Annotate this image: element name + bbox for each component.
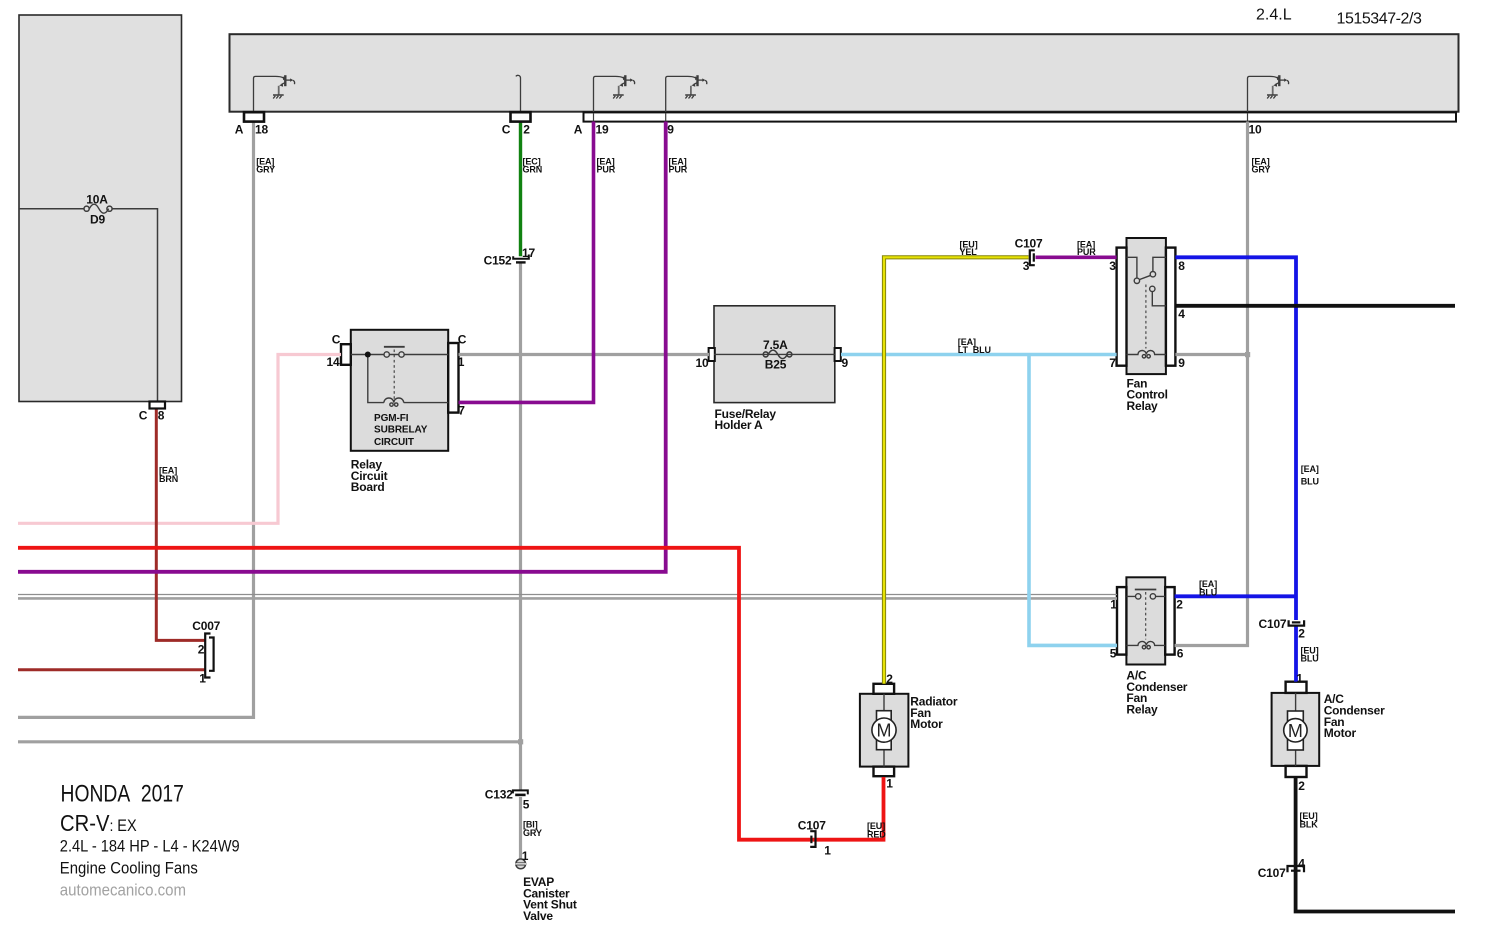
svg-text:1: 1 bbox=[824, 843, 831, 857]
svg-text:YEL: YEL bbox=[960, 247, 978, 257]
svg-text:PGM-FI: PGM-FI bbox=[374, 413, 409, 424]
svg-text:17: 17 bbox=[522, 246, 535, 260]
svg-text:D9: D9 bbox=[90, 213, 105, 227]
svg-text:9: 9 bbox=[842, 356, 849, 370]
svg-text:C107: C107 bbox=[798, 819, 826, 833]
svg-text:1: 1 bbox=[522, 849, 529, 863]
svg-text:Valve: Valve bbox=[523, 909, 553, 923]
svg-text:B25: B25 bbox=[765, 358, 787, 372]
svg-text:5: 5 bbox=[523, 797, 530, 811]
svg-text:LT BLU: LT BLU bbox=[958, 345, 991, 355]
svg-text:[EA]: [EA] bbox=[1301, 464, 1319, 474]
svg-text:7: 7 bbox=[1109, 356, 1116, 370]
svg-text:PUR: PUR bbox=[1077, 247, 1096, 257]
svg-text:C107: C107 bbox=[1015, 236, 1043, 250]
svg-text:C107: C107 bbox=[1259, 617, 1287, 631]
svg-text:10: 10 bbox=[696, 356, 709, 370]
svg-text:A: A bbox=[574, 122, 583, 136]
svg-text:BLU: BLU bbox=[1301, 477, 1319, 487]
svg-text:A: A bbox=[235, 122, 244, 136]
svg-text:CIRCUIT: CIRCUIT bbox=[374, 437, 414, 448]
svg-text:PUR: PUR bbox=[597, 165, 616, 175]
svg-text:CR-V: EX: CR-V: EX bbox=[60, 810, 137, 837]
svg-text:1: 1 bbox=[458, 355, 465, 369]
svg-text:automecanico.com: automecanico.com bbox=[60, 881, 186, 900]
svg-text:9: 9 bbox=[667, 122, 674, 136]
svg-text:Motor: Motor bbox=[910, 717, 943, 731]
svg-text:C132: C132 bbox=[485, 787, 513, 801]
svg-text:BLU: BLU bbox=[1301, 654, 1319, 664]
svg-text:GRY: GRY bbox=[1252, 165, 1271, 175]
svg-text:2.4.L: 2.4.L bbox=[1256, 7, 1292, 24]
svg-text:PUR: PUR bbox=[669, 165, 688, 175]
svg-text:Holder A: Holder A bbox=[715, 418, 763, 432]
svg-text:C: C bbox=[332, 332, 341, 346]
svg-text:3: 3 bbox=[1023, 259, 1030, 273]
svg-text:Relay: Relay bbox=[1127, 399, 1159, 413]
svg-text:2: 2 bbox=[523, 122, 530, 136]
svg-text:HONDA 2017: HONDA 2017 bbox=[61, 779, 184, 807]
svg-text:M: M bbox=[1288, 721, 1303, 741]
svg-text:6: 6 bbox=[1177, 647, 1184, 661]
svg-text:9: 9 bbox=[1178, 356, 1185, 370]
svg-text:C107: C107 bbox=[1258, 866, 1286, 880]
svg-text:1: 1 bbox=[1110, 598, 1117, 612]
svg-text:C152: C152 bbox=[484, 254, 512, 268]
svg-text:C007: C007 bbox=[192, 619, 220, 633]
svg-text:2: 2 bbox=[1298, 627, 1305, 641]
svg-text:10A: 10A bbox=[86, 193, 108, 207]
svg-text:2: 2 bbox=[198, 643, 205, 657]
svg-text:C: C bbox=[502, 122, 511, 136]
svg-text:GRY: GRY bbox=[256, 165, 275, 175]
svg-text:8: 8 bbox=[158, 409, 165, 423]
svg-text:1: 1 bbox=[1296, 671, 1303, 685]
svg-text:2: 2 bbox=[1298, 779, 1305, 793]
svg-text:19: 19 bbox=[596, 122, 609, 136]
svg-text:4: 4 bbox=[1298, 857, 1305, 871]
svg-text:7: 7 bbox=[458, 403, 465, 417]
svg-text:Relay: Relay bbox=[1126, 703, 1158, 717]
svg-text:C: C bbox=[139, 409, 148, 423]
svg-text:1515347-2/3: 1515347-2/3 bbox=[1337, 11, 1422, 28]
svg-text:GRN: GRN bbox=[523, 165, 543, 175]
svg-text:14: 14 bbox=[327, 355, 340, 369]
svg-text:M: M bbox=[877, 721, 892, 741]
svg-text:18: 18 bbox=[255, 122, 268, 136]
svg-text:10: 10 bbox=[1249, 122, 1262, 136]
svg-text:RED: RED bbox=[867, 829, 886, 839]
svg-text:C: C bbox=[458, 332, 467, 346]
svg-text:2: 2 bbox=[1176, 598, 1183, 612]
svg-text:BLU: BLU bbox=[1199, 587, 1217, 597]
svg-text:7.5A: 7.5A bbox=[763, 338, 788, 352]
svg-text:Board: Board bbox=[351, 480, 385, 494]
svg-text:BLK: BLK bbox=[1300, 819, 1319, 829]
svg-text:SUBRELAY: SUBRELAY bbox=[374, 425, 428, 436]
svg-text:3: 3 bbox=[1109, 259, 1116, 273]
svg-text:5: 5 bbox=[1110, 647, 1117, 661]
svg-text:2: 2 bbox=[886, 672, 893, 686]
svg-text:BRN: BRN bbox=[159, 474, 178, 484]
svg-text:1: 1 bbox=[886, 777, 893, 791]
svg-text:4: 4 bbox=[1178, 307, 1185, 321]
svg-text:Engine Cooling Fans: Engine Cooling Fans bbox=[60, 860, 198, 878]
svg-text:Motor: Motor bbox=[1324, 726, 1357, 740]
svg-text:GRY: GRY bbox=[523, 828, 542, 838]
svg-text:1: 1 bbox=[199, 672, 206, 686]
svg-text:2.4L - 184 HP - L4 - K24W9: 2.4L - 184 HP - L4 - K24W9 bbox=[60, 838, 240, 856]
svg-text:8: 8 bbox=[1178, 259, 1185, 273]
